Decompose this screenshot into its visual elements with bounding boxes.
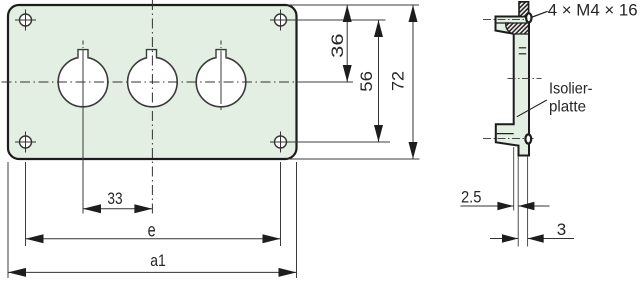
svg-text:a1: a1 — [150, 251, 166, 270]
dimension 33 — [83, 204, 152, 213]
inner line top bar bottom — [496, 22, 511, 24]
dimension 72 — [409, 5, 418, 159]
leader Isolierplatte — [517, 100, 547, 117]
svg-text:56: 56 — [357, 71, 376, 92]
thin lines below side view — [513, 147, 515, 211]
bottom extension lines — [7, 162, 9, 278]
side centerline bottom — [483, 138, 534, 140]
right hole vertical line — [220, 41, 222, 49]
inner line bottom bar top — [496, 133, 514, 135]
extension line top edge right — [287, 4, 420, 6]
dimension a1 — [8, 268, 297, 277]
svg-text:4 × M4 × 16: 4 × M4 × 16 — [548, 1, 638, 20]
screw end ticks — [519, 47, 526, 49]
svg-text:2.5: 2.5 — [461, 188, 482, 207]
svg-text:3: 3 — [557, 220, 566, 239]
extension line mid right — [297, 81, 354, 83]
corner hole top-left — [15, 10, 36, 31]
corner hole top-right — [270, 10, 291, 31]
extension line hole center top right — [291, 19, 386, 21]
button hole left — [58, 57, 108, 107]
svg-text:36: 36 — [328, 33, 347, 58]
screw shaft hatched — [519, 2, 529, 17]
svg-text:33: 33 — [107, 189, 122, 208]
horizontal centerline — [2, 81, 297, 83]
extension line hole center bottom right — [291, 141, 390, 143]
screw head hatched — [506, 23, 529, 34]
vertical centerline middle — [151, 0, 153, 214]
dimension 2.5 — [461, 202, 550, 211]
plate front view — [8, 5, 297, 159]
dimension e — [26, 234, 281, 243]
extension line bottom edge right — [287, 158, 420, 160]
dimension 36 — [343, 5, 352, 82]
corner hole bottom-right — [270, 132, 291, 153]
screw tip ellipse top — [526, 13, 531, 22]
svg-text:Isolier-: Isolier- — [549, 81, 593, 98]
svg-text:72: 72 — [389, 71, 408, 91]
svg-text:e: e — [148, 219, 156, 241]
left hole vertical line — [82, 41, 84, 49]
corner hole bottom-left — [15, 132, 36, 153]
dimension 56 — [374, 20, 383, 142]
button hole right — [196, 57, 246, 107]
side view green body — [496, 17, 530, 156]
dimension 3 — [490, 234, 574, 243]
svg-text:platte: platte — [549, 99, 586, 116]
leader M4 — [531, 11, 548, 17]
side centerline middle — [508, 77, 542, 79]
screw tip ellipse bottom — [525, 134, 531, 143]
side centerline top — [483, 19, 527, 21]
button hole middle — [128, 57, 178, 107]
